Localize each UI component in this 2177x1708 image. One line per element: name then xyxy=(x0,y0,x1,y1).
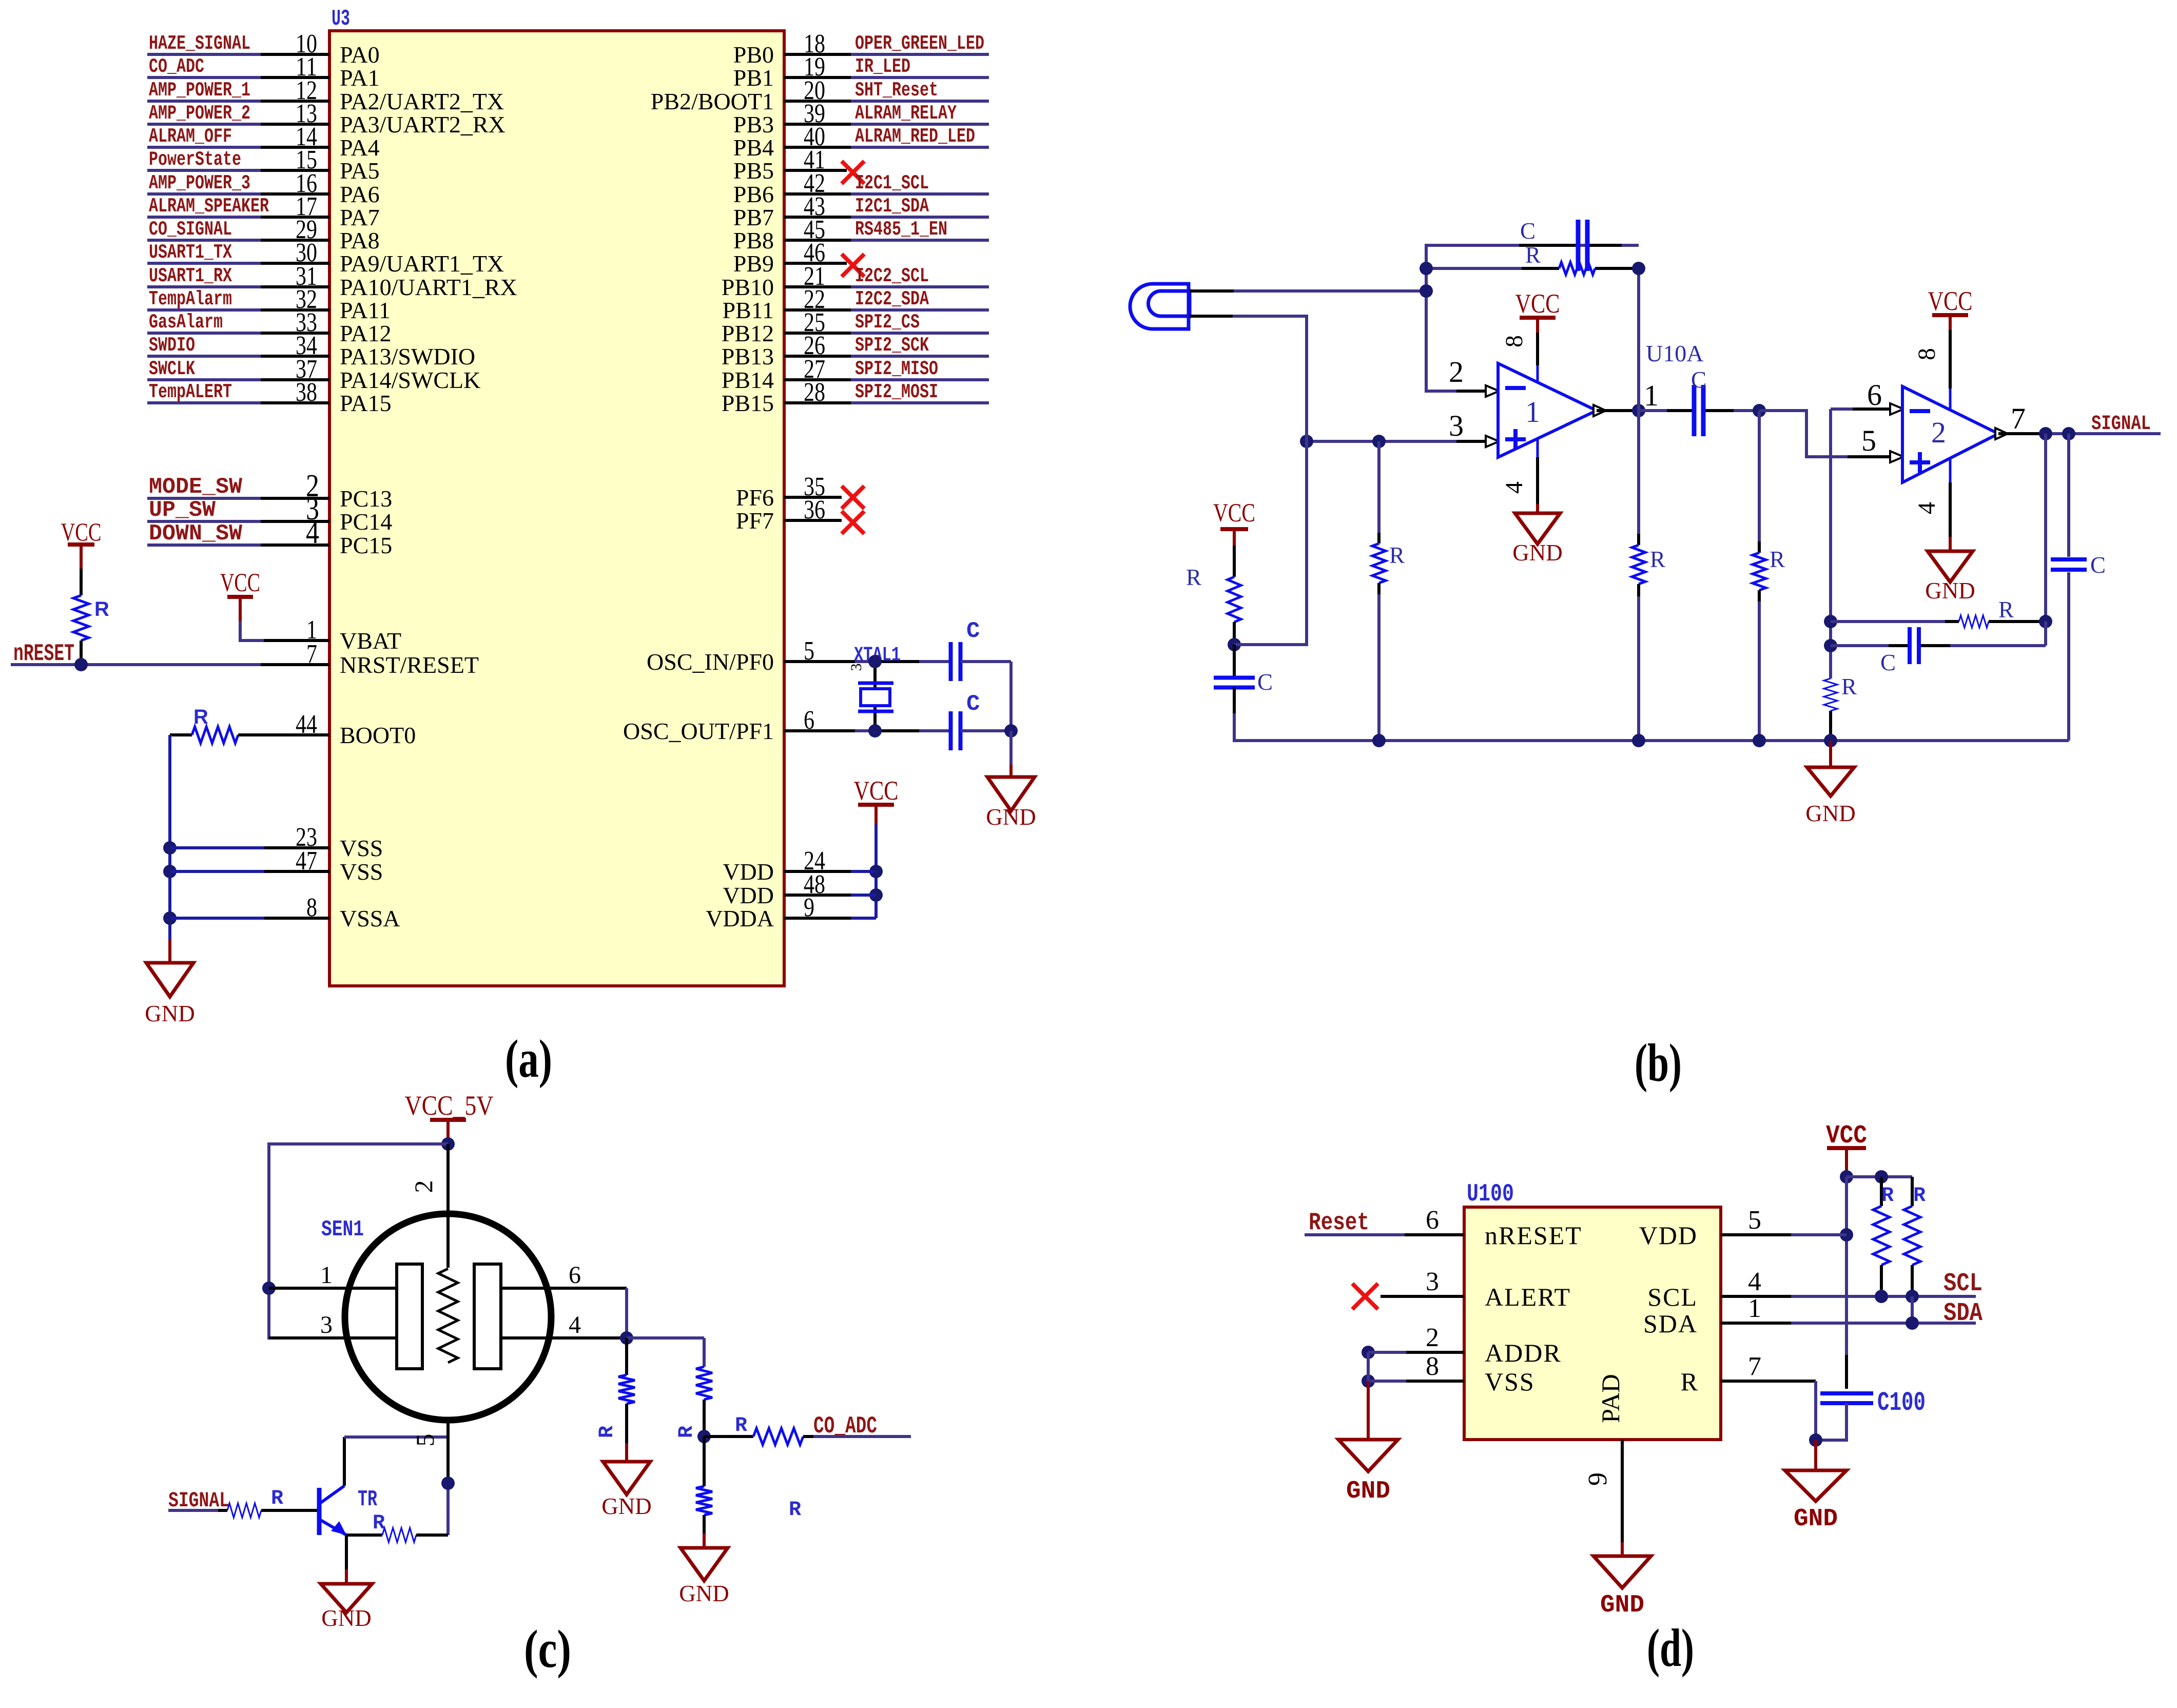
svg-text:VCC: VCC xyxy=(1928,286,1973,316)
svg-text:1: 1 xyxy=(306,615,317,645)
resistor R (CO_ADC series) xyxy=(704,1435,753,1438)
wire VDDA pin 9 xyxy=(851,917,876,920)
svg-text:SIGNAL: SIGNAL xyxy=(2091,413,2151,436)
panel (d) sensor IC U100 xyxy=(1305,1121,1982,1678)
svg-text:PB3: PB3 xyxy=(733,111,774,138)
wire non-inverting input pin 3 xyxy=(1307,440,1456,443)
junction output/R feedback xyxy=(2039,427,2052,440)
sensor pin 3 wire xyxy=(269,1336,397,1340)
svg-text:GND: GND xyxy=(1512,540,1563,566)
wire net AMP_POWER_3 to pin 16 xyxy=(147,192,261,196)
wire net TempALERT to pin 38 xyxy=(147,401,261,404)
junction pin3/left branch xyxy=(1300,435,1313,448)
svg-text:GND: GND xyxy=(1794,1505,1838,1533)
wire to non-inverting input pin 5 xyxy=(1759,411,1848,457)
svg-text:PB0: PB0 xyxy=(733,42,774,68)
wire net DOWN_SW to pin 4 xyxy=(147,544,261,547)
svg-text:5: 5 xyxy=(1861,424,1876,457)
wire net SPI2_CS xyxy=(851,332,989,335)
ground symbol GND (load left) xyxy=(603,1462,650,1494)
junction pin5/collector xyxy=(441,1477,455,1490)
wire VCC to VBAT pin 1 xyxy=(240,621,264,640)
op-amp U10 stage 2 xyxy=(1902,386,1998,482)
wire VCC_5V to sensor pins 1/3 xyxy=(269,1144,448,1338)
svg-text:GND: GND xyxy=(145,1001,195,1026)
svg-text:PF7: PF7 xyxy=(736,508,774,534)
vertical feedback/divider wire xyxy=(1637,268,1640,411)
svg-text:5: 5 xyxy=(1748,1206,1761,1235)
wire R to SDA xyxy=(1911,1296,1914,1323)
sensor pin 1 wire xyxy=(269,1287,397,1290)
svg-text:GND: GND xyxy=(679,1581,729,1606)
wire pin 8 VSS xyxy=(1362,1374,1375,1388)
svg-text:PB6: PB6 xyxy=(733,181,774,207)
svg-text:PB5: PB5 xyxy=(733,158,774,184)
svg-text:ALRAM_SPEAKER: ALRAM_SPEAKER xyxy=(149,195,269,218)
svg-text:SWDIO: SWDIO xyxy=(149,334,195,357)
svg-text:4: 4 xyxy=(306,515,319,550)
ground symbol GND (left) xyxy=(146,963,193,997)
svg-text:VCC: VCC xyxy=(854,776,899,806)
wire net ALRAM_RED_LED xyxy=(851,146,989,149)
svg-text:PA8: PA8 xyxy=(340,227,380,254)
ground symbol GND (ADDR/VSS) xyxy=(1338,1440,1398,1471)
sensor pin 2 wire xyxy=(446,1144,450,1268)
svg-text:PB1: PB1 xyxy=(733,65,774,91)
junction output/C filter xyxy=(2062,427,2075,440)
svg-text:SCL: SCL xyxy=(1943,1269,1982,1298)
svg-text:6: 6 xyxy=(569,1261,581,1289)
svg-text:PB12: PB12 xyxy=(722,320,774,346)
svg-text:2: 2 xyxy=(1426,1323,1439,1352)
svg-text:SWCLK: SWCLK xyxy=(149,358,195,380)
svg-text:SCL: SCL xyxy=(1647,1283,1698,1311)
wire inverting input pin 6 from divider xyxy=(1831,407,1853,411)
wire net GasAlarm to pin 33 xyxy=(147,332,261,335)
svg-text:HAZE_SIGNAL: HAZE_SIGNAL xyxy=(149,32,250,55)
wire collector loop xyxy=(343,1437,346,1486)
svg-text:ALRAM_RED_LED: ALRAM_RED_LED xyxy=(855,125,975,148)
ground symbol GND (PAD) xyxy=(1593,1556,1651,1588)
svg-text:SPI2_MISO: SPI2_MISO xyxy=(855,358,938,380)
svg-text:VCC: VCC xyxy=(61,517,102,546)
svg-text:PA14/SWCLK: PA14/SWCLK xyxy=(340,367,480,393)
ground symbol GND (C100) xyxy=(1814,1440,1817,1470)
svg-text:PB15: PB15 xyxy=(722,390,774,416)
svg-text:GND: GND xyxy=(1925,578,1975,604)
wire inverting input pin 2 xyxy=(1456,390,1486,393)
svg-text:9: 9 xyxy=(1583,1472,1612,1486)
junction photodiode/inverting input xyxy=(1420,284,1433,298)
svg-text:GND: GND xyxy=(1805,801,1856,826)
wire net SWCLK to pin 37 xyxy=(147,378,261,381)
wire VDD pin 24 xyxy=(869,865,883,878)
panel (c) gas sensor circuit xyxy=(168,1090,911,1679)
wire pin4 node right xyxy=(627,1336,704,1340)
svg-text:8: 8 xyxy=(1426,1352,1439,1381)
wire VCC to pullups xyxy=(1846,1175,1912,1178)
svg-text:VCC_5V: VCC_5V xyxy=(405,1090,494,1121)
no-connect X on pin 41 xyxy=(842,161,864,184)
svg-text:SEN1: SEN1 xyxy=(321,1217,364,1243)
wire pin 9 PAD to ground xyxy=(1621,1440,1624,1542)
svg-text:RS485_1_EN: RS485_1_EN xyxy=(855,218,947,241)
svg-text:PA13/SWDIO: PA13/SWDIO xyxy=(340,343,475,370)
svg-text:PB8: PB8 xyxy=(733,227,774,254)
svg-text:TR: TR xyxy=(358,1487,377,1512)
junction pin4/pin6 xyxy=(620,1331,633,1345)
svg-text:PA11: PA11 xyxy=(340,297,391,323)
wire cap to gnd corner xyxy=(961,660,1011,663)
svg-text:AMP_POWER_2: AMP_POWER_2 xyxy=(149,102,250,125)
svg-text:8: 8 xyxy=(306,893,317,922)
svg-text:AMP_POWER_1: AMP_POWER_1 xyxy=(149,79,250,102)
svg-text:PowerState: PowerState xyxy=(149,148,241,171)
resistor R (bias) xyxy=(1233,546,1236,577)
svg-text:VDD: VDD xyxy=(1639,1221,1698,1250)
ground symbol GND (divider) xyxy=(681,1548,728,1581)
resistor R (SCL pullup) xyxy=(1880,1177,1883,1206)
wire net IR_LED xyxy=(851,76,989,79)
svg-text:C: C xyxy=(1880,650,1896,675)
svg-text:SPI2_CS: SPI2_CS xyxy=(855,311,920,334)
crystal XTAL1 xyxy=(873,662,877,731)
op-amp U10A stage 1 xyxy=(1498,363,1597,457)
no-connect X pin 3 xyxy=(1352,1284,1378,1309)
svg-text:OPER_GREEN_LED: OPER_GREEN_LED xyxy=(855,32,984,55)
IC U100 body xyxy=(1464,1207,1721,1440)
wire net AMP_POWER_1 to pin 12 xyxy=(147,100,261,103)
svg-text:R: R xyxy=(1186,565,1201,590)
svg-text:3: 3 xyxy=(1449,409,1464,442)
svg-text:C: C xyxy=(966,691,980,717)
svg-text:8: 8 xyxy=(1501,335,1528,347)
resistor R (pin6 to ground) xyxy=(1824,678,1837,711)
junction SCL/R xyxy=(1875,1290,1888,1303)
svg-text:PA15: PA15 xyxy=(340,390,392,416)
wire op-amp1 output xyxy=(1597,409,1639,412)
svg-text:(c): (c) xyxy=(524,1619,571,1679)
svg-text:DOWN_SW: DOWN_SW xyxy=(149,521,243,547)
wire net SWDIO to pin 34 xyxy=(147,355,261,358)
svg-text:C: C xyxy=(966,618,980,644)
svg-text:PA6: PA6 xyxy=(340,181,380,207)
capacitor C (OSC_OUT) xyxy=(949,711,953,750)
svg-text:OSC_OUT/PF1: OSC_OUT/PF1 xyxy=(623,718,774,744)
sensor heater resistance zigzag xyxy=(438,1269,458,1363)
svg-text:(a): (a) xyxy=(505,1028,552,1089)
junction R feedback left xyxy=(1824,615,1837,628)
resistor R (pin3 to bus) xyxy=(1377,441,1381,533)
svg-text:PA2/UART2_TX: PA2/UART2_TX xyxy=(340,88,504,114)
svg-text:PC15: PC15 xyxy=(340,532,392,558)
wire op-amp2 output to SIGNAL xyxy=(1998,432,2046,435)
svg-text:PAD: PAD xyxy=(1596,1374,1625,1423)
svg-text:GND: GND xyxy=(986,804,1036,830)
wire feedback capacitor branch xyxy=(1426,245,1639,391)
capacitor C (feedback stage2) xyxy=(1831,644,1889,647)
sensor pin 4 wire xyxy=(500,1336,627,1340)
svg-text:U10A: U10A xyxy=(1646,340,1703,366)
wire pin 2 ADDR xyxy=(1362,1346,1375,1359)
svg-text:R: R xyxy=(1998,597,2014,623)
mcu U3 body xyxy=(329,31,784,986)
svg-text:I2C1_SCL: I2C1_SCL xyxy=(855,172,929,195)
svg-text:3: 3 xyxy=(848,664,865,671)
wire pin6 down to pin4 xyxy=(625,1288,628,1338)
ground symbol GND (op-amp 1) xyxy=(1515,513,1560,544)
transistor TR (NPN) xyxy=(317,1488,322,1535)
junction pin1 xyxy=(262,1282,276,1295)
svg-text:(d): (d) xyxy=(1647,1618,1694,1678)
svg-text:VCC: VCC xyxy=(1213,499,1255,528)
junction output/feedback xyxy=(1632,404,1645,417)
wire photodiode cathode xyxy=(1190,315,1233,318)
resistor R (divider top) xyxy=(696,1367,712,1400)
svg-text:SPI2_MOSI: SPI2_MOSI xyxy=(855,381,938,403)
coupling capacitor C xyxy=(1639,409,1667,412)
svg-text:GND: GND xyxy=(1600,1591,1644,1619)
wire feedback resistor branch xyxy=(1426,267,1522,270)
svg-text:R: R xyxy=(271,1487,283,1510)
svg-text:CO_SIGNAL: CO_SIGNAL xyxy=(149,218,232,241)
svg-text:MODE_SW: MODE_SW xyxy=(149,474,243,500)
gas sensor SEN1 body xyxy=(345,1214,551,1420)
resistor R (load left) xyxy=(625,1338,628,1375)
wire net TempAlarm to pin 32 xyxy=(147,308,261,312)
svg-text:R: R xyxy=(1841,674,1857,700)
svg-text:VDD: VDD xyxy=(723,859,774,885)
svg-text:R: R xyxy=(1770,547,1785,572)
pin 4 / ground op-amp 2 xyxy=(1949,458,1952,482)
svg-text:(b): (b) xyxy=(1635,1033,1682,1093)
wire net SPI2_MOSI xyxy=(851,401,989,404)
wire VDD pin 5 xyxy=(1840,1228,1853,1241)
wire SCL xyxy=(1791,1295,1976,1298)
wire net ALRAM_RELAY xyxy=(851,123,989,126)
wire net HAZE_SIGNAL to pin 10 xyxy=(147,53,261,56)
resistor R (output divider) xyxy=(1637,411,1640,534)
svg-text:VDDA: VDDA xyxy=(706,905,774,931)
svg-text:C: C xyxy=(1520,218,1535,244)
svg-text:OSC_IN/PF0: OSC_IN/PF0 xyxy=(647,649,774,675)
svg-text:1: 1 xyxy=(320,1261,333,1289)
svg-text:ADDR: ADDR xyxy=(1485,1338,1562,1367)
svg-text:VSS: VSS xyxy=(340,859,383,885)
svg-text:5: 5 xyxy=(411,1434,439,1447)
svg-text:nRESET: nRESET xyxy=(1485,1221,1582,1250)
svg-text:PB10: PB10 xyxy=(722,274,774,300)
svg-text:R: R xyxy=(193,706,208,728)
svg-text:VSS: VSS xyxy=(1485,1367,1535,1396)
wire pin 3 xyxy=(1381,1295,1464,1298)
junction OSC_OUT/crystal xyxy=(868,724,882,737)
wire net I2C1_SDA xyxy=(851,216,989,219)
svg-text:TempAlarm: TempAlarm xyxy=(149,288,232,310)
junction bias node xyxy=(1228,638,1241,651)
wire net RS485_1_EN xyxy=(851,239,989,242)
svg-text:R: R xyxy=(1389,542,1405,568)
svg-text:C100: C100 xyxy=(1877,1388,1926,1418)
svg-text:2: 2 xyxy=(1931,416,1946,449)
wire VSS pin 23 xyxy=(163,841,177,855)
svg-text:38: 38 xyxy=(296,378,317,407)
svg-text:3: 3 xyxy=(320,1311,333,1338)
svg-text:AMP_POWER_3: AMP_POWER_3 xyxy=(149,172,250,195)
svg-text:C: C xyxy=(2090,552,2106,578)
svg-text:C: C xyxy=(1691,367,1706,393)
svg-text:R: R xyxy=(735,1414,747,1438)
svg-text:R: R xyxy=(1525,242,1541,268)
wire OSC_IN xyxy=(855,660,875,663)
svg-text:9: 9 xyxy=(804,893,814,922)
wire net AMP_POWER_2 to pin 13 xyxy=(147,123,261,126)
svg-text:R: R xyxy=(789,1499,801,1522)
svg-text:R: R xyxy=(596,1426,619,1438)
svg-text:PC13: PC13 xyxy=(340,486,392,512)
svg-text:ALERT: ALERT xyxy=(1485,1283,1571,1311)
svg-text:U100: U100 xyxy=(1467,1180,1514,1208)
wire net ALRAM_SPEAKER to pin 17 xyxy=(147,216,261,219)
svg-text:3: 3 xyxy=(1426,1267,1439,1296)
photodiode D (IR receiver) xyxy=(1130,284,1189,329)
svg-text:8: 8 xyxy=(1913,348,1940,360)
wire ADDR/VSS to ground xyxy=(1367,1352,1370,1381)
ground bus wire xyxy=(1234,713,2069,741)
wire photodiode anode xyxy=(1190,289,1234,293)
wire VSS pin 47 xyxy=(163,865,177,878)
svg-text:BOOT0: BOOT0 xyxy=(340,722,416,748)
junction after coupling cap xyxy=(1753,404,1766,417)
junction caps/gnd xyxy=(1004,724,1018,737)
svg-text:PA12: PA12 xyxy=(340,320,392,346)
wire net USART1_TX to pin 30 xyxy=(147,262,261,265)
wire VCC rail down xyxy=(1845,1177,1848,1355)
svg-text:SPI2_SCK: SPI2_SCK xyxy=(855,334,929,357)
svg-text:R: R xyxy=(1913,1185,1926,1208)
svg-text:R: R xyxy=(94,598,109,620)
sensor pin 6 wire xyxy=(500,1287,627,1290)
resistor R (feedback) xyxy=(1559,262,1595,275)
capacitor C (feedback) xyxy=(1426,244,1519,247)
resistor R (after cap to ground) xyxy=(1758,411,1761,541)
wire net SPI2_SCK xyxy=(851,355,989,358)
wire OSC_OUT xyxy=(855,729,875,732)
svg-text:PB11: PB11 xyxy=(722,297,774,323)
svg-text:CO_ADC: CO_ADC xyxy=(813,1413,877,1440)
svg-text:R: R xyxy=(373,1512,385,1535)
svg-text:7: 7 xyxy=(1748,1352,1761,1381)
junction cap/pin7/ground xyxy=(1809,1433,1822,1447)
wire net MODE_SW to pin 2 xyxy=(147,497,261,500)
svg-text:USART1_TX: USART1_TX xyxy=(149,241,232,264)
svg-text:1: 1 xyxy=(1644,379,1659,412)
svg-text:R: R xyxy=(1681,1367,1698,1396)
wire SDA xyxy=(1791,1322,1976,1325)
svg-text:PF6: PF6 xyxy=(736,484,774,511)
svg-text:GND: GND xyxy=(1346,1478,1390,1505)
svg-text:Reset: Reset xyxy=(1309,1209,1369,1237)
svg-text:UP_SW: UP_SW xyxy=(149,497,216,523)
svg-text:PA4: PA4 xyxy=(340,134,380,161)
svg-text:CO_ADC: CO_ADC xyxy=(149,55,204,78)
svg-text:TempALERT: TempALERT xyxy=(149,381,232,403)
wire BOOT0 to VSS rail xyxy=(168,735,171,939)
junction VCC_5V node xyxy=(441,1137,455,1151)
svg-text:VSSA: VSSA xyxy=(340,905,400,931)
svg-text:PB9: PB9 xyxy=(733,250,774,277)
svg-text:R: R xyxy=(1881,1185,1894,1208)
svg-text:ALRAM_OFF: ALRAM_OFF xyxy=(149,125,232,148)
svg-text:1: 1 xyxy=(1525,395,1540,429)
wire VSSA pin 8 xyxy=(163,911,177,925)
wire SIGNAL input xyxy=(168,1509,218,1512)
capacitor C (OSC_IN) xyxy=(949,642,953,681)
sensor left electrode plate xyxy=(397,1264,422,1369)
wire net CO_SIGNAL to pin 29 xyxy=(147,239,261,242)
svg-text:SHT_Reset: SHT_Reset xyxy=(855,79,938,102)
wire CO_ADC xyxy=(813,1435,911,1438)
junction SDA/R xyxy=(1906,1316,1919,1330)
resistor R (feedback stage2) xyxy=(1831,620,1945,623)
wire VDD pin 48 xyxy=(869,888,883,902)
wire bias node to pin3 branch xyxy=(1234,316,1307,645)
wire net CO_ADC to pin 11 xyxy=(147,76,261,79)
svg-text:PA1: PA1 xyxy=(340,65,380,91)
resistor R (divider bottom) xyxy=(703,1437,706,1486)
junction divider node xyxy=(697,1430,711,1443)
junction OSC_IN/crystal xyxy=(868,655,882,668)
wire net SHT_Reset xyxy=(851,100,989,103)
svg-text:PA9/UART1_TX: PA9/UART1_TX xyxy=(340,250,504,277)
ground symbol GND (emitter) xyxy=(321,1584,372,1613)
svg-text:44: 44 xyxy=(296,710,317,739)
junction feedback left xyxy=(1420,262,1433,275)
svg-text:PB14: PB14 xyxy=(722,367,774,393)
svg-text:SDA: SDA xyxy=(1943,1299,1982,1328)
svg-text:PA3/UART2_RX: PA3/UART2_RX xyxy=(340,111,506,138)
svg-text:4: 4 xyxy=(1748,1267,1761,1296)
svg-text:4: 4 xyxy=(1913,502,1940,514)
resistor R (nRESET pull-up) xyxy=(80,569,83,595)
svg-text:PA5: PA5 xyxy=(340,158,380,184)
wire pin 7 to capacitor xyxy=(1721,1380,1816,1383)
capacitor C (bias decoupling) xyxy=(1233,645,1236,677)
svg-text:I2C2_SDA: I2C2_SDA xyxy=(855,288,929,310)
wire net USART1_RX to pin 31 xyxy=(147,285,261,288)
svg-text:4: 4 xyxy=(1501,481,1528,494)
svg-text:VCC: VCC xyxy=(1515,289,1560,319)
wire net SPI2_MISO xyxy=(851,378,989,381)
wire nRESET to pin 7 xyxy=(11,663,261,666)
panel (b) op-amp amplifier circuit xyxy=(1130,218,2161,1093)
wire pin6 divider vertical xyxy=(1829,409,1832,678)
wire net I2C2_SDA xyxy=(851,308,989,312)
ground symbol GND (op-amp 2) xyxy=(1928,551,1973,582)
wire net OPER_GREEN_LED xyxy=(851,53,989,56)
sensor right electrode plate xyxy=(474,1264,501,1369)
svg-text:R: R xyxy=(1650,547,1665,572)
wire net PowerState to pin 15 xyxy=(147,169,261,172)
svg-text:PA7: PA7 xyxy=(340,204,380,230)
resistor R (SDA pullup) xyxy=(1911,1177,1914,1206)
svg-text:I2C2_SCL: I2C2_SCL xyxy=(855,265,929,287)
svg-text:VBAT: VBAT xyxy=(340,628,401,654)
svg-text:PB13: PB13 xyxy=(722,343,774,370)
capacitor C100 xyxy=(1820,1391,1873,1395)
svg-text:PC14: PC14 xyxy=(340,509,392,535)
svg-text:I2C1_SDA: I2C1_SDA xyxy=(855,195,929,218)
